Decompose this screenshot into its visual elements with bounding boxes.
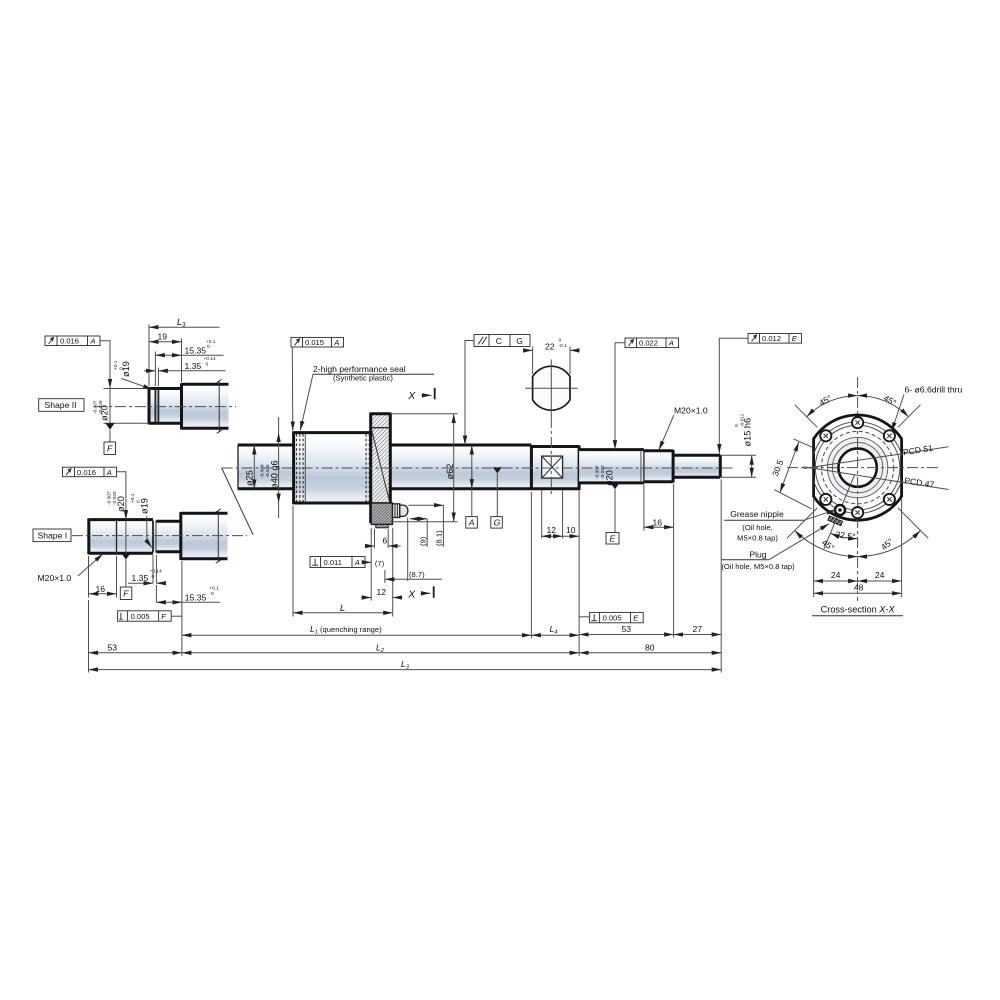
svg-text:6- ø6.6drill thru: 6- ø6.6drill thru [905,385,963,395]
svg-text:+0.1: +0.1 [206,339,216,345]
o62 flange diameter dimension [390,414,457,522]
shape II dimension 15.35 +0.1/0 [155,339,223,386]
PCD 47 circle [815,425,900,510]
shape II dimension 19 [149,332,182,383]
dimension L1 quenching range [182,624,532,636]
svg-text:19: 19 [158,332,168,342]
svg-text:80: 80 [645,642,655,652]
bottom-left 45 arc [795,531,858,557]
bolt hole top [852,417,863,428]
svg-text:A: A [354,558,360,567]
svg-text:E: E [610,534,616,544]
PCD 51 leader and label [804,443,949,469]
section detail circle (22 across flats) [525,360,578,418]
plug label block with leader [721,524,829,571]
svg-text:(Synthetic plastic): (Synthetic plastic) [333,374,393,383]
grease nipple (section view) [835,505,845,515]
svg-text:ø62: ø62 [445,464,455,480]
section arrow X (top) [407,388,435,402]
svg-text:Grease nipple: Grease nipple [730,509,784,519]
shape II centerline [95,406,236,408]
shape I M20 thread + o20 journal body [89,518,157,554]
bottom chain extension lines [89,480,722,673]
dimension L (nut overall length) [293,506,393,617]
svg-text:L3: L3 [177,317,186,329]
svg-text:15.35: 15.35 [185,592,207,602]
svg-text:A: A [90,337,96,346]
svg-text:A: A [668,339,674,348]
svg-text:L1 (quenching range): L1 (quenching range) [310,624,382,636]
shape II break line [217,379,222,433]
svg-text:F: F [107,444,113,454]
svg-text:15.35: 15.35 [185,346,207,356]
dimension 16 (thread length) [644,484,674,638]
svg-text:1.35: 1.35 [132,573,149,583]
screw outside circle [832,442,882,492]
svg-text:-0.025: -0.025 [265,464,271,478]
svg-text:30.5: 30.5 [770,458,785,477]
svg-text:0.011: 0.011 [324,558,342,567]
datum G symbol on centerline and box [491,467,503,528]
shape I centerline [72,535,247,537]
ball nut body [294,431,371,504]
svg-text:0: 0 [152,574,155,580]
square drive section [531,445,579,490]
nut flange [371,413,391,524]
svg-text:0.016: 0.016 [60,337,79,346]
svg-text:(Oil hole,: (Oil hole, [742,523,772,532]
svg-text:0.012: 0.012 [762,334,781,343]
screw bore circle [838,448,876,486]
svg-text:24: 24 [831,570,841,580]
svg-text:22.5°: 22.5° [835,529,856,542]
svg-text:-0.1: -0.1 [559,343,568,349]
nipple dimension (8.1) [408,505,443,547]
svg-text:0.022: 0.022 [639,339,658,348]
o15 h6 end section [673,450,720,483]
svg-text:+0.1: +0.1 [210,585,220,591]
svg-text:Shape I: Shape I [38,530,68,540]
svg-text:0: 0 [206,362,209,368]
svg-text:0.005: 0.005 [131,612,150,621]
shape II o25 screw section [182,383,229,429]
shape I o19 section [156,521,180,552]
svg-text:48: 48 [854,583,864,593]
datum A arrows and box [466,445,478,528]
bolt hole upper-left [820,430,831,441]
svg-text:ø20: ø20 [605,470,615,486]
dimension 80 [579,642,721,653]
svg-text:G: G [516,336,523,346]
svg-text:(Oil hole, M5×0.8 tap): (Oil hole, M5×0.8 tap) [721,562,795,571]
grease nipple label block with leader [724,509,836,542]
svg-text:ø25: ø25 [245,470,255,486]
svg-text:0: 0 [136,500,142,503]
svg-text:12: 12 [547,525,557,535]
shape II dimension 1.35 +0.14/0 [144,356,226,386]
svg-text:F: F [123,589,129,599]
connector diagonal between detail views and main view [222,468,254,535]
svg-text:X: X [407,589,416,601]
bolt hole upper-right [884,430,895,441]
svg-text:(9): (9) [419,536,428,546]
svg-text:16: 16 [96,584,106,594]
o20 journal section [579,450,644,483]
plug (section view) [828,516,843,526]
shape I perpendicularity frame 0.005/F [118,611,182,621]
dimension L2 [182,642,579,654]
ball track ring [827,437,887,497]
nipple dimension 6 [366,529,401,548]
shape I snap-ring groove [153,521,156,553]
svg-text:-0.007: -0.007 [107,491,113,505]
svg-text:F: F [161,612,166,621]
shape I view label box [33,529,71,542]
perpendicularity frame 0.005/E [579,612,643,622]
shape II snap-ring groove [155,389,158,424]
runout frame 0.015/A on nut with leader [291,337,344,430]
svg-text:(7): (7) [375,559,385,568]
22.5 arc [830,533,857,538]
svg-text:M5×0.8 tap): M5×0.8 tap) [737,533,778,542]
screw shaft [238,445,532,489]
dimension 12 (flange width) [363,528,402,617]
svg-text:Plug: Plug [749,550,766,560]
svg-text:-0.020: -0.020 [600,465,606,479]
grease nipple (side view) [393,504,408,518]
cross-section title [812,605,903,616]
svg-text:-0.009: -0.009 [260,464,266,478]
svg-text:X: X [407,390,416,402]
X-X vertical centerline [857,377,859,601]
svg-text:10: 10 [566,525,576,535]
dimension 22 across flats [524,338,579,375]
shape I datum F symbol and box [120,553,132,599]
svg-text:0: 0 [734,424,740,427]
shape II o20 label rotated [93,400,110,421]
svg-text:L3: L3 [401,659,410,671]
bolt hole lower-left [820,494,831,505]
45 degree radial extension lines [787,405,928,539]
shape I o19 label rotated with leader [130,493,152,547]
nipple dimension (8.7) [385,518,442,584]
shape I break line [216,509,221,563]
shape II datum F symbol and box [104,423,116,454]
svg-text:M20×1.0: M20×1.0 [674,406,708,416]
svg-text:45°: 45° [882,393,898,408]
svg-text:0: 0 [211,591,214,597]
nut left seal (dashed band) [297,433,306,502]
shape II view label box [39,399,84,412]
6-o6.6 drill thru label with leader [892,385,963,432]
shape II o20 journal body [149,387,182,424]
grease nipple axis line [824,475,855,549]
flange grease boss (hatched) [371,503,392,528]
nut body hidden circle (dashed) [821,431,893,503]
shape II dimension L3 (top, open ended) [149,317,220,386]
X-X horizontal centerline [787,467,938,469]
svg-text:C: C [496,336,502,346]
svg-text:A: A [333,338,339,347]
svg-text:(8.7): (8.7) [409,570,425,579]
svg-text:0: 0 [559,338,562,344]
dimension L4 [531,624,579,636]
svg-text:1.35: 1.35 [185,361,202,371]
dimensions 24 / 24 [814,499,902,597]
flange outline with flats [814,415,902,520]
svg-text:(8.1): (8.1) [435,530,444,546]
svg-text:2-high performance seal: 2-high performance seal [313,364,406,374]
svg-text:ø40 g6: ø40 g6 [270,460,280,489]
o20 journal label (main view) [595,465,615,486]
svg-text:+0.14: +0.14 [204,356,216,362]
30.5 dimension [770,439,812,509]
nut right seal (dashed band) [366,434,369,502]
svg-text:0.005: 0.005 [603,614,622,623]
dimension 53 (left) [89,642,182,653]
parallelism frame C G with leader [465,335,530,446]
svg-text:+0.14: +0.14 [150,568,162,574]
dimension 27 [674,624,722,635]
svg-text:L4: L4 [550,624,558,636]
svg-text:45°: 45° [820,537,836,553]
bottom-right 45 arc [858,531,921,557]
section position dash-dot line down to shaft [550,417,552,497]
PCD 51 circle [812,422,904,514]
square symbol with diagonals [542,456,563,478]
shape I M20x1.0 thread label with leader [38,554,104,583]
M20x1.0 thread label (main) with leader [659,406,708,451]
nipple dimension (9) [410,519,428,547]
svg-text:22: 22 [545,342,555,352]
section arrow X (bottom) [407,586,433,600]
shape II o20 diameter dimension with extension lines [104,389,150,424]
svg-text:+0.1: +0.1 [113,360,119,370]
svg-text:Shape II: Shape II [45,400,77,410]
svg-text:L: L [340,603,345,613]
top-right 45 arc [858,396,909,417]
svg-text:0: 0 [207,344,210,350]
dimension L3 (bottom overall) [89,659,722,671]
svg-text:L2: L2 [376,642,385,654]
svg-text:27: 27 [693,624,703,634]
svg-text:12: 12 [377,587,387,597]
dimension 48 [814,583,902,594]
svg-text:24: 24 [875,570,885,580]
shape I o20 dimension line through shaft [125,522,127,554]
shape I o25 screw section [181,512,228,560]
svg-text:-0.007: -0.007 [595,465,601,479]
svg-text:53: 53 [108,642,118,652]
top-left 45 arc [807,396,858,417]
o15 h6 dimension [720,413,756,477]
svg-text:Cross-section X-X: Cross-section X-X [821,605,896,615]
svg-text:M20×1.0: M20×1.0 [38,573,72,583]
shape I dimension 16 [89,556,117,598]
dimension 53 (right) [579,624,674,635]
svg-text:16: 16 [653,517,663,527]
o40 g6 nut pilot diameter dimension [260,417,280,518]
o25 screw diameter dimension [245,445,255,489]
datum E symbol and box [606,483,620,544]
svg-text:A: A [468,518,475,528]
svg-text:PCD 47: PCD 47 [904,475,935,489]
perpendicularity frame 0.011/A with (7) [310,557,385,569]
svg-text:0.016: 0.016 [77,468,96,477]
bolt hole lower-right [884,494,895,505]
svg-text:-0.011: -0.011 [740,413,746,427]
shape II o19 groove label rotated with leader [113,360,153,389]
shape II runout frame 0.016/A with leader [45,336,110,389]
svg-text:PCD 51: PCD 51 [902,443,933,457]
shape I dimension 15.35 +0.1/0 [156,561,220,656]
shape I runout frame 0.016/A with leader [63,467,126,519]
svg-text:53: 53 [622,624,632,634]
svg-text:A: A [106,468,112,477]
svg-text:6: 6 [383,535,388,545]
runout frame 0.022/A with leader [615,338,679,450]
bolt hole bottom [852,507,863,518]
svg-text:-0.020: -0.020 [112,491,118,505]
svg-text:+0.1: +0.1 [130,493,136,503]
runout frame 0.012/E with leader [719,334,801,454]
svg-text:0.015: 0.015 [305,338,324,347]
main centerline [222,467,735,469]
svg-text:G: G [494,518,501,528]
seal label with leader [300,364,434,431]
PCD 47 leader and label [804,467,949,490]
shape I dimension 1.35 +0.14/0 [128,555,165,583]
shape I o20 label rotated [107,491,127,512]
svg-text:0: 0 [119,367,125,370]
dimensions 12 / 10 on square section [542,490,579,656]
M20 thread section [641,450,673,482]
